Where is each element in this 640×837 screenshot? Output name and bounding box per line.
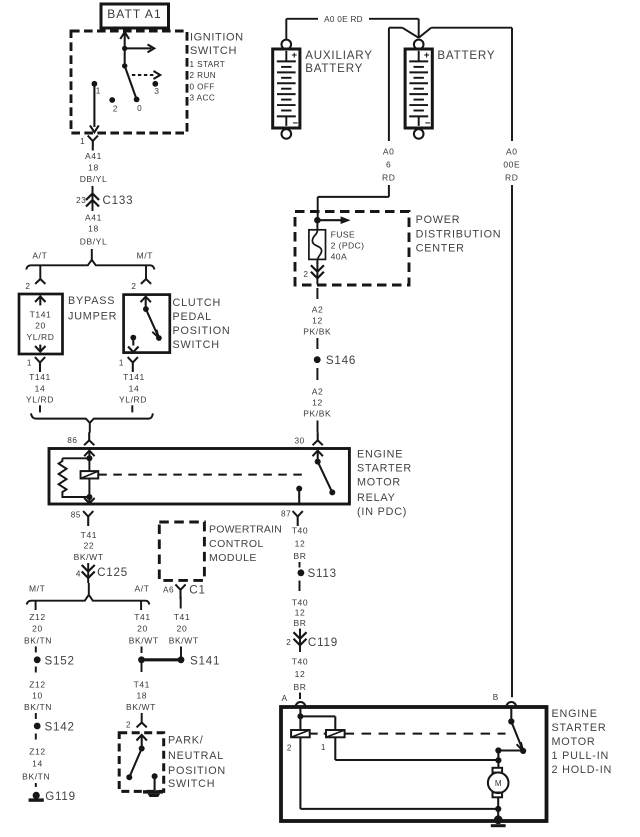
svg-text:BATTERY: BATTERY [305,62,363,75]
svg-text:T40: T40 [292,525,308,535]
svg-text:1: 1 [80,137,85,146]
svg-text:A6: A6 [163,585,174,594]
svg-text:85: 85 [71,511,81,520]
svg-text:DB/YL: DB/YL [80,237,108,247]
svg-text:2: 2 [25,282,30,291]
svg-text:2: 2 [286,638,291,647]
svg-text:BK/WT: BK/WT [126,702,156,712]
svg-text:RELAY: RELAY [357,492,396,504]
svg-text:CONTROL: CONTROL [209,538,264,550]
svg-text:C1: C1 [189,584,205,597]
svg-text:YL/RD: YL/RD [26,394,54,404]
svg-text:NEUTRAL: NEUTRAL [168,750,224,762]
svg-text:00E: 00E [503,159,520,169]
svg-text:PEDAL: PEDAL [173,311,212,323]
svg-text:M: M [495,779,502,788]
svg-text:BR: BR [293,682,306,692]
svg-text:T141: T141 [30,310,52,320]
svg-text:20: 20 [177,624,188,634]
svg-text:MOTOR: MOTOR [357,476,401,488]
svg-text:BR: BR [293,618,306,628]
svg-text:YL/RD: YL/RD [119,394,147,404]
svg-text:A/T: A/T [32,250,47,260]
svg-text:T41: T41 [134,612,150,622]
svg-text:87: 87 [281,510,291,519]
svg-text:Z12: Z12 [29,747,45,757]
svg-text:S142: S142 [45,721,75,734]
svg-text:BK/WT: BK/WT [169,636,199,646]
svg-text:30: 30 [294,437,304,446]
svg-text:1: 1 [119,359,124,368]
svg-text:POWERTRAIN: POWERTRAIN [209,524,282,536]
svg-text:ENGINE: ENGINE [552,708,598,720]
svg-text:12: 12 [312,316,323,326]
svg-text:20: 20 [35,320,46,330]
svg-text:RD: RD [505,172,518,182]
svg-text:A41: A41 [85,212,102,222]
svg-text:SWITCH: SWITCH [168,778,215,790]
svg-text:PK/BK: PK/BK [303,326,331,336]
svg-text:A0 0E RD: A0 0E RD [324,15,363,24]
svg-text:BATT A1: BATT A1 [107,7,162,21]
svg-text:2 HOLD-IN: 2 HOLD-IN [552,764,613,776]
svg-text:3: 3 [154,87,159,96]
svg-text:C119: C119 [308,636,338,649]
svg-text:A41: A41 [85,151,102,161]
svg-text:12: 12 [312,397,323,407]
svg-text:JUMPER: JUMPER [68,311,117,323]
svg-text:12: 12 [295,539,306,549]
svg-text:POSITION: POSITION [168,765,226,777]
svg-text:14: 14 [32,759,43,769]
svg-text:BR: BR [293,551,306,561]
svg-text:MODULE: MODULE [209,552,257,564]
svg-text:SWITCH: SWITCH [173,339,220,351]
svg-text:S146: S146 [326,354,356,367]
svg-text:10: 10 [32,691,43,701]
svg-text:14: 14 [35,384,46,394]
svg-text:1 PULL-IN: 1 PULL-IN [552,750,610,762]
svg-text:M/T: M/T [29,584,45,594]
svg-text:CLUTCH: CLUTCH [173,297,222,309]
svg-text:A0: A0 [506,146,518,156]
svg-text:1: 1 [27,359,32,368]
svg-text:12: 12 [295,669,306,679]
svg-text:BYPASS: BYPASS [68,295,115,307]
svg-text:18: 18 [88,224,99,234]
svg-text:2: 2 [131,282,136,291]
svg-text:IGNITION: IGNITION [190,32,244,44]
svg-text:BK/TN: BK/TN [24,702,52,712]
svg-text:2: 2 [113,105,118,114]
svg-text:+: + [424,50,430,61]
svg-text:+: + [292,50,298,61]
svg-text:A2: A2 [312,387,324,397]
svg-text:20: 20 [137,624,148,634]
svg-text:T141: T141 [123,372,145,382]
svg-text:T41: T41 [81,530,97,540]
svg-text:A/T: A/T [134,584,149,594]
svg-text:A2: A2 [312,305,324,315]
svg-text:1: 1 [321,743,326,752]
svg-text:(IN PDC): (IN PDC) [357,506,407,518]
svg-text:23: 23 [76,196,86,205]
svg-text:Z12: Z12 [29,612,45,622]
svg-text:20: 20 [32,624,43,634]
svg-text:18: 18 [88,163,99,173]
svg-text:SWITCH: SWITCH [190,45,237,57]
svg-text:2: 2 [126,721,131,730]
svg-text:MOTOR: MOTOR [552,736,596,748]
svg-text:YL/RD: YL/RD [26,332,54,342]
svg-text:DISTRIBUTION: DISTRIBUTION [416,228,502,240]
svg-text:BATTERY: BATTERY [437,49,495,62]
svg-text:S141: S141 [190,655,220,668]
svg-text:B: B [493,693,499,702]
svg-text:AUXILIARY: AUXILIARY [305,49,373,62]
svg-text:2 RUN: 2 RUN [190,71,217,80]
svg-text:0 OFF: 0 OFF [190,83,215,92]
svg-text:0: 0 [137,104,142,113]
svg-text:40A: 40A [331,251,348,261]
svg-text:DB/YL: DB/YL [80,174,108,184]
svg-text:POSITION: POSITION [173,325,231,337]
svg-text:3 ACC: 3 ACC [190,94,216,103]
svg-text:1: 1 [96,87,101,96]
svg-text:BK/TN: BK/TN [24,636,52,646]
svg-text:−: − [425,118,431,129]
svg-text:STARTER: STARTER [552,722,607,734]
svg-text:RD: RD [382,172,395,182]
svg-text:T41: T41 [134,680,150,690]
svg-text:BK/WT: BK/WT [129,636,159,646]
svg-text:PARK/: PARK/ [168,734,204,746]
svg-text:6: 6 [386,159,391,169]
svg-text:STARTER: STARTER [357,463,412,475]
svg-text:CENTER: CENTER [416,242,465,254]
svg-text:PK/BK: PK/BK [303,409,331,419]
svg-text:BK/WT: BK/WT [74,552,104,562]
svg-text:2 (PDC): 2 (PDC) [331,241,365,251]
svg-text:POWER: POWER [416,214,461,226]
svg-text:−: − [293,118,299,129]
svg-text:2: 2 [303,270,308,279]
svg-text:G119: G119 [45,790,76,803]
svg-text:22: 22 [84,541,95,551]
svg-text:BK/TN: BK/TN [22,771,50,781]
svg-text:S152: S152 [45,655,75,668]
svg-text:A0: A0 [383,146,395,156]
svg-text:1 START: 1 START [190,60,226,69]
svg-text:T40: T40 [292,656,308,666]
svg-text:Z12: Z12 [29,680,45,690]
svg-text:ENGINE: ENGINE [357,448,403,460]
svg-text:M/T: M/T [137,250,153,260]
svg-text:12: 12 [295,608,306,618]
svg-text:18: 18 [136,691,147,701]
svg-text:S113: S113 [308,567,337,580]
svg-text:T141: T141 [29,372,51,382]
svg-text:C125: C125 [97,566,128,579]
svg-text:4: 4 [76,570,81,579]
svg-text:86: 86 [67,436,77,445]
svg-text:T41: T41 [174,612,190,622]
svg-text:14: 14 [129,384,140,394]
svg-text:T40: T40 [292,598,308,608]
svg-text:C133: C133 [103,194,134,207]
svg-text:FUSE: FUSE [331,230,356,240]
svg-text:A: A [282,694,288,703]
svg-text:2: 2 [287,744,292,753]
